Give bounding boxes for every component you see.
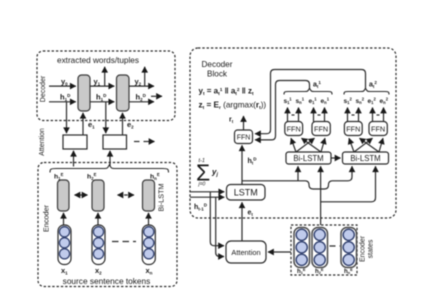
wire et attention up to LSTM (241, 202, 243, 241)
wire rt out of FFN (243, 116, 245, 130)
encoder state column h2 (312, 228, 328, 268)
svg-text:LSTM: LSTM (234, 187, 258, 197)
svg-text:extracted words/tuples: extracted words/tuples (57, 56, 139, 65)
wire y2 out of D2 (129, 85, 154, 87)
staple wire at2 feedback to FFN (255, 70, 366, 134)
svg-text:FFN: FFN (287, 125, 301, 134)
FFN box 2 (312, 122, 330, 136)
wire h0 into D1 (49, 101, 76, 103)
svg-text:Encoder: Encoder (360, 235, 367, 262)
dashed double arrow E2-E3 (118, 194, 135, 196)
svg-text:FFN: FFN (237, 135, 251, 142)
svg-text:yt = at1 ‖ at2 ‖ zt: yt = at1 ‖ at2 ‖ zt (199, 87, 255, 98)
wire brace up into attention box1 (73, 151, 75, 167)
svg-text:FFN: FFN (314, 125, 328, 134)
decoder cell D1 (78, 75, 90, 111)
svg-text:j=0: j=0 (198, 182, 206, 188)
wire token1 up into E1 (63, 213, 65, 225)
wire htD branch to BiLSTMs with dip (242, 166, 352, 189)
svg-text:Bi-LSTM: Bi-LSTM (350, 154, 380, 163)
wire e2 up into D2 (122, 113, 124, 135)
dashed continuation arrow attention row (134, 141, 155, 143)
double arrow E1-E2 (75, 194, 88, 196)
wire token2 up into E2 (97, 213, 99, 225)
svg-text:Decoder: Decoder (202, 60, 233, 69)
wire y1 up to tuples (104, 67, 106, 86)
wire D1 down to attention box1 (66, 102, 68, 133)
wire e1 up into D1 (82, 113, 84, 135)
brace over group2 outputs (344, 88, 389, 94)
svg-text:Bi-LSTM: Bi-LSTM (157, 184, 166, 212)
wire htD LSTM up to FFN (241, 145, 243, 185)
wire ht-1D into LSTM (190, 196, 224, 198)
wire sum yj into LSTM (190, 191, 224, 193)
svg-text:FFN: FFN (371, 125, 385, 134)
wire encoder states into attention (268, 251, 291, 253)
FFN r box (235, 130, 253, 144)
dashed continuation arrow decoder row (151, 95, 162, 97)
svg-text:Bi-LSTM: Bi-LSTM (293, 154, 323, 163)
output arrows above FFN2 (314, 108, 325, 122)
FFN box 3 (344, 122, 362, 136)
attention box 1 (63, 135, 87, 149)
decoder cell D2 (117, 75, 130, 111)
encoder state column h1 (294, 228, 310, 268)
FFN box 1 (285, 122, 303, 136)
token column x1 (58, 225, 71, 265)
wire h2 out of D2 (129, 101, 154, 103)
wire htD up into BiLSTM1 (297, 166, 299, 181)
encoder cell E1 (58, 180, 70, 211)
LSTM box (227, 185, 266, 201)
svg-text:FFN: FFN (346, 125, 360, 134)
attention box (right) (226, 241, 266, 263)
Bi-LSTM box 2 (343, 152, 389, 164)
arrow BiLSTM1 to BiLSTM2 (331, 157, 341, 159)
FFN box 4 (369, 122, 387, 136)
svg-text:Attention: Attention (39, 128, 46, 156)
brace over group1 outputs (284, 88, 332, 94)
token column x2 (92, 225, 105, 265)
encoder cell E3 (143, 180, 155, 211)
brace over encoder states (left) (50, 165, 169, 173)
wire y1 D1 to D2 (90, 85, 114, 87)
svg-text:source sentence tokens: source sentence tokens (63, 276, 151, 286)
output arrows above FFN1 (288, 108, 299, 122)
decoder dashed box (left) (37, 51, 175, 121)
encoder cell E2 (92, 180, 104, 211)
crossing arrows BiLSTM2 to FFN3/FFN4 (349, 138, 383, 152)
svg-text:Decoder: Decoder (40, 75, 47, 102)
wire brace up into attention box2 (109, 151, 111, 167)
wire h1 D1 to D2 (90, 101, 114, 103)
wire branch down to attention (1) (210, 192, 224, 246)
staple wire at1 feedback to FFN (255, 81, 310, 140)
svg-text:t-1: t-1 (199, 158, 205, 164)
svg-text:zt = Er (argmax(rt)): zt = Er (argmax(rt)) (199, 101, 267, 112)
wire encoder states up into BiLSTM1 (320, 166, 322, 225)
output arrows above FFN3 (348, 108, 359, 122)
Bi-LSTM box 1 (286, 152, 331, 164)
svg-text:Block: Block (207, 70, 228, 79)
wire encoder states branch to BiLSTM2 (321, 166, 376, 202)
decoder block dashed box (right) (190, 48, 396, 218)
attention box 2 (103, 135, 127, 149)
encoder state column hn (341, 228, 357, 268)
wire branch down to attention (2) (216, 197, 224, 256)
ellipsis dashes between token columns (112, 241, 136, 243)
svg-text:Encoder: Encoder (42, 204, 51, 232)
ellipsis dashes between encoder state columns (330, 245, 341, 247)
wire D2 down to attention box2 (105, 102, 107, 133)
token column xn (142, 225, 155, 265)
wire y2 up to tuples (144, 67, 146, 86)
svg-text:states: states (368, 239, 375, 258)
encoder dashed box (left) (38, 163, 177, 287)
encoder states dashed box (291, 225, 357, 275)
svg-text:Attention: Attention (231, 248, 260, 257)
wire y0 into D1 (49, 85, 76, 87)
output arrows above FFN4 (373, 108, 384, 122)
wire token3 up into E3 (148, 213, 150, 225)
crossing arrows BiLSTM1 to FFN1/FFN2 (291, 138, 325, 152)
